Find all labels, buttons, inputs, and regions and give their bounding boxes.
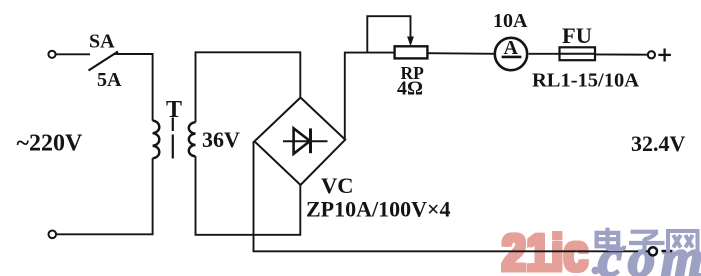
wire bbox=[595, 53, 648, 55]
transformer T core bbox=[172, 118, 174, 159]
wire bbox=[529, 53, 560, 55]
svg-text:32.4V: 32.4V bbox=[631, 131, 686, 156]
wire bbox=[57, 158, 153, 234]
svg-text:FU: FU bbox=[562, 23, 592, 48]
svg-text:A: A bbox=[504, 37, 519, 59]
svg-text:ZP10A/100V×4: ZP10A/100V×4 bbox=[306, 197, 451, 222]
rheostat wiper arrow bbox=[407, 37, 414, 47]
wire secondary top to bridge AC top bbox=[196, 52, 301, 122]
transformer T secondary winding bbox=[189, 122, 196, 156]
bridge rectifier VC diamond bbox=[255, 98, 346, 186]
bridge diode symbol bbox=[283, 128, 328, 154]
svg-text:SA: SA bbox=[89, 31, 115, 53]
wire bbox=[56, 53, 90, 55]
wire secondary bottom to bridge AC bottom bbox=[196, 156, 301, 235]
wire bbox=[114, 54, 153, 121]
plus sign bbox=[658, 49, 671, 62]
rheostat RP body bbox=[395, 46, 428, 58]
svg-text:10A: 10A bbox=[493, 10, 528, 32]
svg-text:36V: 36V bbox=[202, 127, 240, 152]
ammeter underline bbox=[502, 56, 522, 59]
minus sign bbox=[662, 250, 673, 252]
transformer T primary winding bbox=[153, 121, 160, 159]
svg-text:5A: 5A bbox=[97, 69, 122, 91]
wire bridge DC+ up to top rail bbox=[345, 53, 395, 140]
svg-text:T: T bbox=[166, 97, 182, 123]
ammeter PA circle bbox=[495, 38, 527, 70]
svg-text:~220V: ~220V bbox=[17, 131, 83, 157]
watermark 21ic.com logo bbox=[499, 222, 701, 276]
watermark chinese characters over wire bbox=[595, 228, 698, 252]
wire rheostat wiper loop bbox=[367, 16, 410, 52]
svg-text:VC: VC bbox=[321, 173, 354, 198]
fuse FU body bbox=[560, 47, 596, 60]
terminal output plus bbox=[648, 51, 655, 58]
terminal bottom-left input bbox=[49, 231, 57, 239]
switch SA blade bbox=[89, 52, 119, 71]
svg-text:4Ω: 4Ω bbox=[397, 78, 423, 100]
terminal top-left input bbox=[48, 51, 55, 58]
svg-text:RL1-15/10A: RL1-15/10A bbox=[532, 70, 639, 92]
terminal output minus bbox=[649, 247, 657, 255]
wire bbox=[427, 52, 496, 55]
fuse FU midline bbox=[560, 53, 596, 55]
wire bridge DC- to bottom rail bbox=[254, 141, 649, 251]
